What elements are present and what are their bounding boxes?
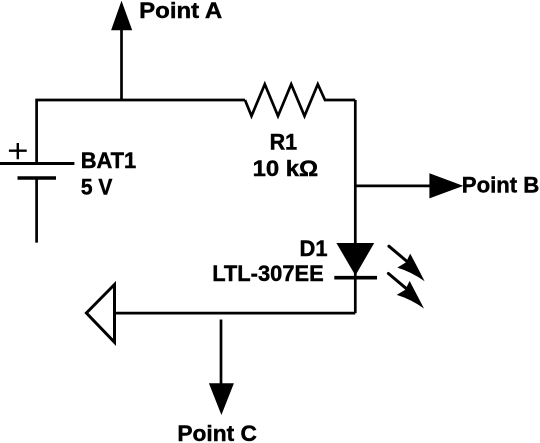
svg-text:LTL-307EE: LTL-307EE [212,261,324,286]
svg-text:Point C: Point C [177,421,257,443]
svg-text:Point B: Point B [462,173,540,198]
svg-text:D1: D1 [300,236,328,261]
svg-text:5 V: 5 V [81,175,113,200]
svg-text:10 kΩ: 10 kΩ [253,156,319,181]
svg-text:R1: R1 [270,130,298,155]
svg-text:BAT1: BAT1 [81,148,137,173]
svg-text:Point A: Point A [139,0,222,23]
